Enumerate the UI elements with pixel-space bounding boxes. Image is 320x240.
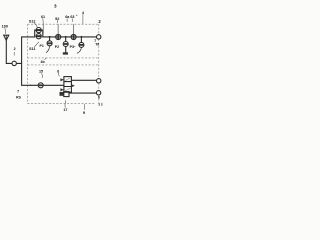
solenoid black block (60, 92, 64, 96)
svg-text:P1: P1 (40, 44, 44, 48)
svg-text:61: 61 (41, 15, 45, 19)
svg-text:RS: RS (16, 95, 21, 99)
wire node to riser (16, 62, 21, 64)
pump pair right bracket (41, 30, 43, 37)
svg-text:15: 15 (39, 70, 43, 74)
svg-text:4b: 4b (41, 60, 45, 64)
svg-text:7: 7 (17, 89, 19, 93)
junction dot lower (30, 85, 31, 86)
leader 100 (4, 28, 7, 34)
pilot line to valve 63 (73, 25, 75, 35)
solenoid box 17 (64, 92, 69, 97)
port circle T6 (97, 35, 101, 39)
valve circle 52 (56, 35, 61, 40)
actuator arrow left top (60, 78, 64, 81)
svg-text:63: 63 (70, 15, 74, 19)
svg-text:52: 52 (55, 17, 59, 21)
leader 9 (83, 104, 85, 109)
leader 4 (82, 14, 84, 23)
svg-text:P2: P2 (55, 45, 59, 49)
dashed divider box A bottom (28, 57, 99, 59)
tank funnel symbol (4, 35, 9, 40)
drain hook P3 (77, 47, 81, 53)
leader 61 (42, 18, 44, 24)
valve internal arrow top (65, 78, 70, 81)
bottom right tick marks (99, 103, 102, 105)
lower feed wire (22, 84, 39, 86)
hanging circle P3 (79, 42, 84, 47)
wire stem to node circle (6, 62, 12, 64)
pump pair left bracket (35, 30, 36, 37)
junction P3 (80, 36, 82, 38)
junction P2 (65, 36, 67, 38)
drain hook P1 (46, 46, 49, 53)
leader 17 (64, 100, 67, 107)
valve internal arrow bottom (65, 88, 70, 91)
tank stem wire (5, 40, 7, 63)
wire valve to port A (71, 79, 96, 81)
port circle B (96, 91, 100, 95)
pump S11 bottom circle (36, 34, 41, 39)
valve circle 63 (71, 35, 76, 40)
actuator arrow left bottom (60, 88, 64, 91)
leader S12 (34, 23, 38, 28)
leader 6a (66, 19, 68, 22)
pilot line to pair (42, 25, 44, 34)
leader 15 (41, 73, 44, 77)
valve 15 body (64, 77, 72, 93)
main riser wire (21, 37, 23, 85)
port circle A (97, 79, 101, 83)
svg-text:17: 17 (63, 108, 67, 112)
leader S11 (35, 42, 39, 47)
leader 2 tank (13, 52, 15, 55)
junction P1 (49, 36, 51, 38)
svg-text:3: 3 (54, 3, 57, 8)
leader 6 valve (58, 73, 59, 77)
wire to valve (43, 84, 64, 86)
pump S12 top circle (36, 28, 41, 33)
hanging circle P2 (63, 42, 68, 47)
svg-text:2: 2 (14, 47, 16, 51)
node circle 2 (12, 61, 16, 65)
main supply wire (43, 36, 97, 38)
hanging circle P1 (47, 41, 52, 46)
pilot line to valve 52 (57, 25, 59, 35)
svg-text:P3: P3 (70, 45, 74, 49)
leader P3 dash (74, 45, 75, 47)
dashed enclosure top edge (28, 23, 99, 25)
leader 4b (45, 58, 47, 60)
lower circle pump (38, 83, 43, 88)
leader 63 (71, 19, 73, 22)
dashed enclosure left edge (27, 24, 29, 104)
svg-text:S12: S12 (29, 19, 36, 23)
dashed enclosure right edge (98, 24, 100, 105)
svg-text:6: 6 (57, 69, 59, 73)
dashed enclosure bottom edge (28, 103, 94, 105)
upper feed wire (22, 36, 35, 38)
svg-text:T6: T6 (95, 43, 99, 47)
svg-text:S11: S11 (29, 47, 35, 51)
stray dot (76, 15, 77, 16)
svg-text:6: 6 (98, 95, 100, 99)
arrow right middle (71, 84, 75, 87)
svg-text:100: 100 (2, 24, 8, 28)
leader 52 (57, 20, 59, 23)
dashed divider box B top (28, 64, 99, 66)
wire valve to port B (69, 92, 96, 94)
drain stub and tank bar P2 (65, 47, 67, 53)
